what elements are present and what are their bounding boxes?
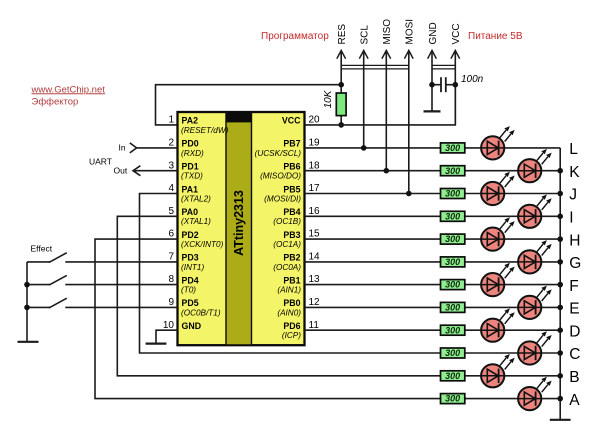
LED H <box>481 217 515 250</box>
svg-text:2: 2 <box>168 138 174 149</box>
svg-text:(XCK/INT0): (XCK/INT0) <box>181 240 224 249</box>
wire pin 19 to resistor row L <box>305 147 441 149</box>
svg-text:PD3: PD3 <box>182 253 199 263</box>
svg-text:PB5: PB5 <box>283 184 300 194</box>
resistor R1 10K <box>336 93 346 116</box>
svg-text:K: K <box>569 164 580 181</box>
junction bus row C <box>557 350 563 356</box>
svg-text:20: 20 <box>309 115 321 126</box>
junction MOSI/pin17 <box>406 191 412 197</box>
wire pin 17 to resistor row J <box>305 193 441 195</box>
svg-text:(XTAL2): (XTAL2) <box>181 194 211 203</box>
wire UART In to pin 2 <box>137 147 178 149</box>
wire pin 13 to resistor row F <box>305 284 441 286</box>
switch SW1 <box>27 261 50 263</box>
wire pin1 PA2 to RES (reset loop) <box>156 85 342 125</box>
arrow In (into pin2) <box>130 143 137 153</box>
wire resistor to LED row L <box>465 147 560 149</box>
junction bus row A <box>557 396 563 402</box>
resistor 300 (row E) <box>441 302 465 312</box>
svg-text:PB6: PB6 <box>283 162 300 172</box>
svg-text:B: B <box>569 369 579 386</box>
wire resistor to LED row I <box>465 215 560 217</box>
svg-text:3: 3 <box>168 160 174 171</box>
svg-text:(OC0B/T1): (OC0B/T1) <box>181 308 221 317</box>
wire pin 10 GND <box>156 330 178 343</box>
svg-text:PD5: PD5 <box>182 298 199 308</box>
svg-text:C: C <box>569 346 580 363</box>
svg-text:(RXD): (RXD) <box>181 149 204 158</box>
wire pin 18 to resistor row K <box>305 170 441 172</box>
svg-text:In: In <box>119 143 126 153</box>
svg-text:G: G <box>569 255 581 272</box>
junction bus row D <box>557 327 563 333</box>
svg-text:(OC1A): (OC1A) <box>273 240 301 249</box>
svg-text:Питание 5В: Питание 5В <box>468 31 523 42</box>
LED L <box>481 126 515 159</box>
connector bar (power) <box>432 64 455 66</box>
resistor 300 (row G) <box>441 257 465 267</box>
junction bus row K <box>557 168 563 174</box>
svg-text:VCC: VCC <box>282 116 301 126</box>
svg-text:GND: GND <box>428 22 439 44</box>
junction bus row G <box>557 259 563 265</box>
wire VCC rail pin20 <box>305 85 456 125</box>
LED B <box>481 354 515 387</box>
svg-text:10K: 10K <box>323 89 334 108</box>
resistor 300 (row I) <box>441 211 465 221</box>
svg-text:18: 18 <box>309 160 321 171</box>
wire capacitor to VCC <box>446 84 456 86</box>
svg-text:I: I <box>569 210 573 227</box>
wire GND to capacitor <box>432 84 441 86</box>
LED F <box>481 263 515 296</box>
IC U1 center band <box>226 113 252 344</box>
junction 10K bottom / VCC rail <box>338 122 344 128</box>
svg-text:(OC1B): (OC1B) <box>273 217 301 226</box>
svg-text:MOSI: MOSI <box>405 19 416 45</box>
wire resistor to LED row A <box>465 398 560 400</box>
svg-text:(XTAL1): (XTAL1) <box>181 217 211 226</box>
connector pin arrow RES <box>340 51 342 125</box>
switch SW3 <box>27 306 50 308</box>
svg-text:10: 10 <box>163 320 175 331</box>
svg-text:PB4: PB4 <box>283 207 300 217</box>
svg-text:PA0: PA0 <box>182 207 199 217</box>
junction bus row E <box>557 305 563 311</box>
junction bus row J <box>557 191 563 197</box>
resistor 300 (row K) <box>441 166 465 176</box>
wire pin 15 to resistor row H <box>305 238 441 240</box>
LED J <box>481 172 515 205</box>
LED E <box>518 286 552 319</box>
svg-text:16: 16 <box>309 206 321 217</box>
connector bar (programmer) <box>341 64 409 66</box>
wire resistor to LED row C <box>465 352 560 354</box>
svg-text:5: 5 <box>168 206 174 217</box>
svg-text:H: H <box>569 232 580 249</box>
ground (IC pin 10) <box>146 343 167 345</box>
svg-text:14: 14 <box>309 252 321 263</box>
svg-text:PB2: PB2 <box>283 253 300 263</box>
svg-text:PD1: PD1 <box>182 162 199 172</box>
resistor 300 (row B) <box>441 371 465 381</box>
wire pin 14 to resistor row G <box>305 261 441 263</box>
resistor 300 (row H) <box>441 234 465 244</box>
junction bus row I <box>557 214 563 220</box>
svg-text:(MOSI/DI): (MOSI/DI) <box>264 194 301 203</box>
svg-text:(UCSK/SCL): (UCSK/SCL) <box>255 149 302 158</box>
wire pin 11 to resistor row D <box>305 329 441 331</box>
svg-text:PD2: PD2 <box>182 230 199 240</box>
svg-text:PB3: PB3 <box>283 230 300 240</box>
svg-text:(RESET/dW): (RESET/dW) <box>181 126 229 135</box>
svg-text:1: 1 <box>168 115 174 126</box>
svg-text:SCL: SCL <box>360 25 371 45</box>
connector pin arrow MOSI <box>408 51 410 194</box>
svg-text:Effect: Effect <box>31 244 53 254</box>
LED D <box>481 308 515 341</box>
resistor 300 (row J) <box>441 189 465 199</box>
junction VCC/capacitor <box>453 82 459 88</box>
connector pin arrow MISO <box>385 51 387 171</box>
svg-text:(TXD): (TXD) <box>181 172 203 181</box>
wire pin 12 to resistor row E <box>305 306 441 308</box>
svg-text:17: 17 <box>309 183 321 194</box>
resistor 300 (row D) <box>441 325 465 335</box>
LED I <box>518 195 552 228</box>
junction SCL/pin19 <box>361 145 367 151</box>
svg-text:J: J <box>569 187 577 204</box>
svg-text:PB0: PB0 <box>283 298 300 308</box>
svg-text:(INT1): (INT1) <box>181 263 204 272</box>
wire resistor to LED row K <box>465 170 560 172</box>
svg-text:(MISO/DO): (MISO/DO) <box>260 172 301 181</box>
junction switch 3 common <box>24 305 30 311</box>
connector pin arrow GND <box>431 51 433 112</box>
svg-text:VCC: VCC <box>451 23 462 44</box>
svg-text:19: 19 <box>309 138 321 149</box>
junction RES/reset loop <box>338 82 344 88</box>
wire resistor to LED row E <box>465 306 560 308</box>
wire pin 4 PA1 to row C <box>140 194 441 354</box>
svg-text:PD4: PD4 <box>182 275 199 285</box>
svg-text:RES: RES <box>337 24 348 45</box>
svg-text:MISO: MISO <box>382 19 393 45</box>
svg-text:UART: UART <box>89 157 112 167</box>
switch SW2 <box>27 284 50 286</box>
junction switch 2 common <box>24 282 30 288</box>
svg-text:13: 13 <box>309 274 321 285</box>
resistor 300 (row C) <box>441 348 465 358</box>
LED K <box>518 149 552 182</box>
svg-text:(AIN0): (AIN0) <box>277 308 301 317</box>
svg-text:PB1: PB1 <box>283 275 300 285</box>
svg-text:E: E <box>569 301 579 318</box>
wire LED cathode bus <box>559 148 561 420</box>
junction GND/capacitor <box>429 82 435 88</box>
wire resistor to LED row D <box>465 329 560 331</box>
svg-text:A: A <box>569 392 580 409</box>
wire resistor to LED row G <box>465 261 560 263</box>
op IC U1 ATtiny2313 body <box>178 112 305 345</box>
svg-text:Out: Out <box>114 166 128 176</box>
arrow Out (from pin3) <box>133 166 140 176</box>
LED A <box>518 377 552 410</box>
ground (switches) <box>18 341 39 343</box>
svg-text:9: 9 <box>168 297 174 308</box>
svg-text:100n: 100n <box>461 74 484 85</box>
svg-text:PD6: PD6 <box>283 321 300 331</box>
svg-text:L: L <box>569 141 578 158</box>
connector pin arrow SCL <box>363 51 365 148</box>
junction bus row B <box>557 373 563 379</box>
junction MISO/pin18 <box>384 168 390 174</box>
capacitor C1 100n <box>440 77 442 92</box>
resistor 300 (row F) <box>441 280 465 290</box>
wire resistor to LED row F <box>465 284 560 286</box>
svg-text:www.GetChip.net: www.GetChip.net <box>31 84 106 95</box>
wire pin 6 PD2 to row A <box>95 239 441 399</box>
wire resistor to LED row B <box>465 375 560 377</box>
svg-text:ATtiny2313: ATtiny2313 <box>232 190 246 256</box>
junction bus row H <box>557 236 563 242</box>
svg-text:PA2: PA2 <box>182 116 199 126</box>
svg-text:7: 7 <box>168 252 174 263</box>
svg-text:(AIN1): (AIN1) <box>277 286 301 295</box>
LED C <box>518 331 552 364</box>
resistor 300 (row L) <box>441 143 465 153</box>
svg-text:12: 12 <box>309 297 321 308</box>
connector pin arrow VCC <box>454 51 456 125</box>
wire resistor to LED row J <box>465 193 560 195</box>
LED G <box>518 240 552 273</box>
svg-text:Эффектор: Эффектор <box>32 96 79 107</box>
svg-text:Программатор: Программатор <box>261 31 329 42</box>
svg-text:F: F <box>569 278 578 295</box>
wire pin 3 to UART Out <box>133 170 178 172</box>
wire pin 16 to resistor row I <box>305 215 441 217</box>
svg-text:15: 15 <box>309 229 321 240</box>
svg-text:6: 6 <box>168 229 174 240</box>
svg-text:(OC0A): (OC0A) <box>273 263 301 272</box>
wire pin 5 PA0 to row B <box>117 216 440 375</box>
IC U1 pin1 notch <box>226 113 252 122</box>
svg-text:4: 4 <box>168 183 174 194</box>
svg-text:PB7: PB7 <box>283 139 300 149</box>
svg-text:(ICP): (ICP) <box>282 331 301 340</box>
ground (LED bus) <box>550 419 571 421</box>
svg-text:PD0: PD0 <box>182 139 199 149</box>
ground (power connector) <box>424 110 441 112</box>
svg-text:(T0): (T0) <box>181 286 196 295</box>
svg-text:PA1: PA1 <box>182 184 199 194</box>
svg-text:8: 8 <box>168 274 174 285</box>
svg-text:11: 11 <box>309 320 320 331</box>
svg-text:GND: GND <box>182 321 202 331</box>
wire resistor to LED row H <box>465 238 560 240</box>
wire switch common <box>26 262 28 342</box>
svg-text:D: D <box>569 323 580 340</box>
resistor 300 (row A) <box>441 394 465 404</box>
junction bus row F <box>557 282 563 288</box>
